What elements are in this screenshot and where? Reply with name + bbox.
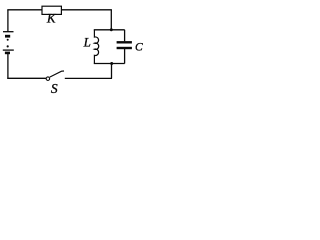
- capacitor C top lead: [124, 30, 126, 42]
- switch S pivot circle: [46, 77, 50, 81]
- capacitor C bottom lead: [124, 49, 126, 64]
- battery ellipsis dot 2: [7, 45, 9, 47]
- wire bottom left: [7, 77, 46, 79]
- resistor box K: [42, 6, 61, 14]
- wire left lower: [7, 54, 9, 79]
- wire right feed lower: [111, 64, 113, 79]
- tank bottom bar: [94, 63, 125, 65]
- svg-text:K: K: [46, 11, 57, 26]
- battery cell 1 short thick plate: [5, 35, 10, 38]
- wire top: [7, 9, 112, 11]
- wire right feed upper: [110, 10, 112, 31]
- wire left upper: [7, 10, 9, 32]
- svg-text:S: S: [51, 81, 58, 96]
- battery cell 2 long plate: [3, 49, 14, 51]
- battery ellipsis dot 1: [7, 39, 9, 41]
- wire bottom right: [65, 77, 112, 79]
- battery cell 2 short thick plate: [5, 52, 10, 55]
- svg-text:L: L: [83, 35, 91, 50]
- battery cell 1 long plate: [3, 31, 14, 33]
- capacitor C top plate: [117, 41, 132, 43]
- junction node top: [110, 28, 113, 31]
- junction node bottom: [110, 62, 113, 65]
- svg-text:C: C: [135, 42, 143, 54]
- inductor L coil: [94, 30, 98, 64]
- switch S lever: [50, 71, 64, 77]
- capacitor C bottom plate: [117, 47, 132, 49]
- tank top bar: [94, 29, 125, 31]
